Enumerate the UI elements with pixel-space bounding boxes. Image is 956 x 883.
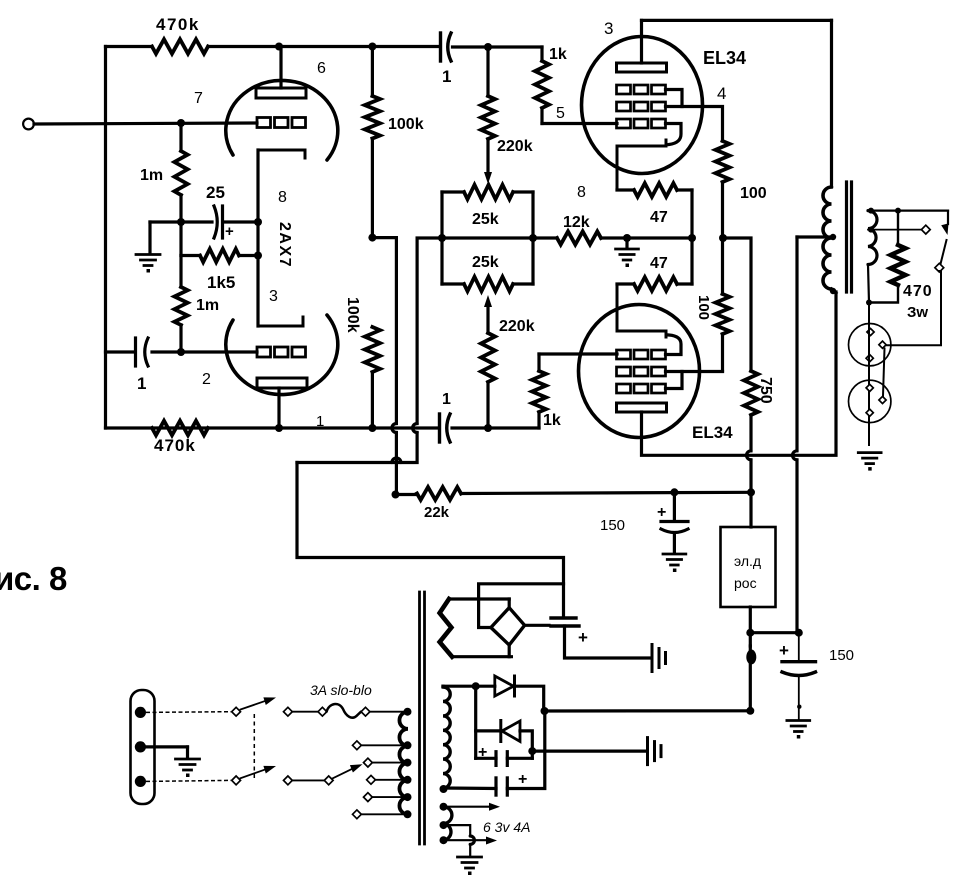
wire tap2	[372, 762, 408, 764]
svg-text:470k: 470k	[156, 15, 200, 34]
resistor 1k lower	[532, 354, 546, 428]
svg-text:2: 2	[202, 371, 211, 388]
wire bridge plus	[525, 624, 549, 627]
wire 1k lower to grid	[539, 352, 617, 355]
terminal jack1 top	[867, 328, 874, 335]
resistor 1k upper	[535, 61, 549, 108]
terminal speaker common	[935, 263, 944, 272]
svg-text:750: 750	[757, 377, 774, 404]
label 100 upper	[740, 185, 767, 202]
tube V1b envelope	[226, 315, 338, 395]
label pin 1 V1	[316, 413, 324, 430]
wire OT primary top	[830, 20, 833, 187]
label 47 upper	[650, 209, 668, 226]
terminal tap2	[364, 758, 373, 767]
resistor 100 lower	[716, 294, 730, 334]
svg-text:1: 1	[137, 374, 146, 393]
wire bridge bottom	[508, 645, 511, 657]
terminal fuse left	[318, 707, 327, 716]
capacitor 1 bottom	[440, 414, 451, 442]
wire V3 plate to OT	[642, 292, 837, 455]
label plus 150uF-2	[779, 641, 789, 660]
label 2AX7	[276, 222, 293, 268]
label fig 8	[0, 560, 67, 597]
label plus HV cap	[578, 628, 588, 647]
wire V2 plate to rail	[640, 20, 643, 63]
wire 1k5 leads	[181, 254, 258, 257]
capacitor 1 top	[441, 33, 452, 61]
wire bridge left	[440, 192, 443, 284]
ground G7 mains	[176, 759, 200, 777]
label plus bias A	[478, 744, 487, 761]
label 25k upper	[472, 211, 499, 228]
label 100 lower	[695, 295, 712, 320]
wire heater ct	[444, 825, 475, 856]
resistor 25k upper	[442, 185, 533, 199]
capacitor 150uF second	[782, 633, 816, 719]
junction heater ct	[440, 821, 448, 829]
resistor 47 lower	[617, 277, 692, 291]
svg-text:150: 150	[600, 517, 625, 534]
terminal switch1 pivot	[232, 707, 241, 716]
switch mains arm1	[241, 700, 269, 710]
wire HV bottom lead	[452, 655, 511, 658]
wire 100k upper leads	[371, 47, 374, 238]
svg-text:12k: 12k	[563, 214, 590, 231]
wire tap5	[361, 813, 407, 815]
arrow heater bottom	[486, 837, 497, 845]
junction 150uF-2 stem	[797, 705, 801, 709]
wire to cap lower-left	[106, 350, 134, 353]
wire bias top lead	[443, 685, 495, 689]
wire bridge top	[508, 599, 511, 608]
wire input to V1a grid	[34, 123, 257, 124]
junction PT tap 4	[404, 793, 412, 801]
junction 150uF-1 top	[670, 488, 678, 496]
svg-text:150: 150	[829, 647, 854, 664]
svg-text:100k: 100k	[388, 116, 424, 133]
junction screen/rail	[719, 234, 727, 242]
wire D1 out	[515, 686, 751, 711]
junction cathode/25uF	[254, 218, 262, 226]
wire V3 g3 to cathode	[666, 335, 682, 355]
label 220k upper	[497, 138, 533, 155]
label 47 lower	[650, 255, 668, 272]
label 1k5	[207, 273, 235, 292]
svg-text:470: 470	[903, 283, 933, 300]
tube V2 grids	[617, 85, 666, 128]
label 100k lower	[344, 297, 361, 333]
wire bias left drop	[474, 686, 477, 758]
chassis ground B	[648, 738, 662, 765]
label plus 25uF	[225, 223, 234, 240]
terminal tap5	[353, 810, 362, 819]
wire 750 down	[747, 415, 752, 527]
svg-text:25k: 25k	[472, 254, 499, 271]
label 25k lower	[472, 254, 499, 271]
transformer OT primary	[823, 187, 832, 289]
junction 220k top	[484, 43, 492, 51]
wire tap3	[375, 779, 407, 781]
wire OT primary bottom	[832, 289, 837, 293]
choke box el.d ros	[721, 527, 776, 607]
wire sec tap	[868, 229, 922, 231]
svg-text:100: 100	[740, 185, 767, 202]
terminal fuse left outer	[284, 707, 293, 716]
junction doubler mid	[528, 747, 536, 755]
label 470	[903, 283, 933, 300]
svg-text:ис. 8: ис. 8	[0, 560, 67, 597]
junction screen node	[747, 488, 755, 496]
tube V1b cathode	[258, 317, 303, 326]
svg-text:3: 3	[269, 288, 278, 305]
arrow 220k upper	[484, 172, 492, 184]
svg-text:5: 5	[556, 105, 565, 122]
wire D2 right	[520, 731, 532, 758]
junction 12k/ground	[623, 234, 631, 242]
wire mains top	[146, 711, 231, 714]
wire 100 lower to V3	[721, 334, 724, 371]
label plus bias B	[518, 771, 527, 788]
svg-text:EL34: EL34	[703, 48, 746, 68]
mains plug	[131, 690, 155, 804]
resistor 1m upper	[174, 151, 187, 195]
label 150 second	[829, 647, 854, 664]
svg-text:7: 7	[194, 90, 203, 107]
terminal tap3	[367, 775, 376, 784]
switch gang link	[253, 714, 255, 778]
wire tapsel	[292, 779, 325, 781]
wire Bplus to bridge	[297, 238, 564, 616]
capacitor bias A	[496, 752, 507, 766]
resistor 470k bottom	[152, 421, 208, 435]
transformer PT core	[420, 592, 425, 844]
wire fuse to PT	[370, 711, 408, 713]
switch mains arm2	[241, 769, 269, 779]
junction PT tap 1	[404, 741, 412, 749]
label 150 first	[600, 517, 625, 534]
chassis ground A	[652, 645, 666, 672]
transformer OT core	[847, 182, 852, 292]
resistor 750	[744, 371, 758, 415]
resistor 22k	[396, 487, 752, 500]
wire cap top to 1k	[453, 47, 543, 61]
wire HV top lead	[449, 597, 509, 600]
label 22k	[424, 504, 450, 521]
junction sec bottom/470	[866, 300, 872, 306]
wire cathode vertical	[256, 150, 259, 326]
resistor 12k	[533, 231, 692, 244]
junction 47s common	[688, 234, 696, 242]
wire screen to supply	[723, 238, 751, 371]
wire Bplus link	[750, 631, 799, 634]
resistor 470	[869, 211, 906, 303]
resistor 47 upper	[617, 183, 692, 197]
tube V3 cathode	[617, 284, 666, 337]
svg-text:25: 25	[206, 183, 225, 202]
svg-text:100: 100	[695, 295, 712, 320]
wire 1m upper leads	[179, 123, 182, 256]
wire cap bottom to 1k lower	[452, 426, 539, 429]
wire D2 left	[476, 729, 501, 732]
wire OT sec top	[868, 211, 948, 224]
junction heater bottom	[440, 836, 448, 844]
label plus 150uF-1	[657, 504, 666, 521]
label pin 6	[317, 60, 326, 77]
ground G2 bias	[616, 238, 639, 267]
wire heater bottom lead	[444, 839, 487, 841]
terminal tap1	[353, 741, 362, 750]
arrow switch2	[263, 766, 276, 774]
svg-text:22k: 22k	[424, 504, 450, 521]
wire bridge right	[531, 192, 534, 284]
svg-text:+: +	[779, 641, 789, 660]
ground G1 cathode	[136, 222, 160, 273]
ground G5 speaker	[858, 453, 881, 471]
label pin 4	[717, 84, 726, 103]
speaker jack 1	[849, 324, 891, 366]
terminal jack2 hot	[879, 396, 886, 403]
svg-text:1: 1	[442, 67, 451, 86]
terminal tap4	[364, 793, 373, 802]
wire bridge middle	[442, 236, 533, 239]
wire heater top lead	[444, 806, 490, 808]
svg-text:47: 47	[650, 209, 668, 226]
label 6.3v 4A	[483, 819, 530, 835]
diode D1	[495, 676, 515, 696]
label 25	[206, 183, 225, 202]
wire 1m lower leads	[179, 256, 182, 353]
resistor 220k upper	[481, 47, 495, 172]
label pin 8 V1	[278, 189, 287, 206]
ground G4 150uF-2	[787, 721, 810, 739]
wire mains mid to ground	[146, 747, 188, 758]
svg-text:Зw: Зw	[907, 304, 928, 321]
svg-text:1k5: 1k5	[207, 273, 235, 292]
resistor 1k5	[200, 249, 239, 262]
resistor 100k upper	[365, 96, 380, 139]
junction 22k left	[392, 491, 400, 499]
junction 470 top	[895, 208, 901, 214]
svg-text:1m: 1m	[196, 297, 219, 314]
wire bottom rail left	[106, 426, 438, 429]
svg-text:1k: 1k	[549, 46, 567, 63]
label 470k bottom	[154, 436, 196, 455]
label pin 3 V2	[604, 19, 613, 38]
svg-text:рос: рос	[734, 575, 757, 591]
label EL34 upper	[703, 48, 746, 68]
svg-text:220k: 220k	[497, 138, 533, 155]
svg-text:+: +	[657, 504, 666, 521]
svg-text:3: 3	[604, 19, 613, 38]
tube V1a envelope	[226, 80, 338, 160]
wire bridge minus	[479, 584, 564, 628]
wire capB right	[507, 711, 545, 789]
capacitor HV reservoir	[551, 618, 579, 626]
tube V1a plate	[256, 88, 306, 98]
junction 100k1/rail	[368, 43, 376, 51]
label pin 2	[202, 371, 211, 388]
label 3w	[907, 304, 928, 321]
tube V1b grid	[257, 347, 306, 357]
label 1k lower	[543, 412, 561, 429]
label pin 7	[194, 90, 203, 107]
label 220k lower	[499, 318, 535, 335]
ground G6 heater	[458, 857, 482, 875]
transformer OT secondary	[868, 211, 877, 265]
wire top rail left	[106, 45, 153, 48]
transformer PT primary	[399, 712, 408, 815]
label 3A slo-blo	[310, 682, 372, 698]
arrow tap switch	[350, 764, 363, 772]
wire to fuse	[292, 711, 319, 713]
wire top rail right	[208, 45, 439, 48]
label 1 cap top	[442, 67, 451, 86]
wire plate rail to OT	[642, 19, 832, 22]
svg-text:25k: 25k	[472, 211, 499, 228]
wire sec bottom	[868, 265, 869, 303]
junction PT tap 2	[404, 759, 412, 767]
terminal tapsel pivot	[284, 776, 293, 785]
wire bead to rect	[749, 646, 752, 711]
junction Bplus left	[746, 629, 754, 637]
resistor 470k top	[152, 39, 208, 53]
label 1m upper	[140, 167, 163, 184]
junction PT tap 5	[404, 810, 412, 818]
label 1k upper	[549, 46, 567, 63]
wire V3 g1-row bracket	[666, 372, 683, 389]
resistor 1m lower	[174, 287, 187, 325]
arrow switch1	[263, 697, 276, 705]
junction sec tap	[868, 227, 874, 233]
winding HV zigzag	[440, 599, 453, 657]
wire V1b plate down	[277, 388, 280, 428]
fuse 3A	[327, 704, 362, 718]
label 1 cap lower-left	[137, 374, 146, 393]
wire doubler ground	[532, 749, 645, 752]
svg-text:220k: 220k	[499, 318, 535, 335]
tube V3 envelope	[579, 305, 700, 438]
resistor 220k lower	[481, 307, 495, 428]
junction bias top	[472, 682, 480, 690]
label EL34 lower	[692, 423, 733, 442]
fuse bead	[746, 650, 756, 665]
capacitor 150uF first	[661, 492, 688, 553]
junction 220k lower/rail	[484, 424, 492, 432]
svg-text:эл.д: эл.д	[734, 553, 761, 569]
junction 100k2/rail	[368, 424, 376, 432]
svg-text:8: 8	[577, 184, 586, 201]
label 750	[757, 377, 774, 404]
junction PT primary top	[404, 708, 412, 716]
label 1m lower	[196, 297, 219, 314]
wire HV cap to chassis	[565, 626, 651, 658]
mains pin bottom	[135, 776, 146, 787]
svg-text:4: 4	[717, 84, 726, 103]
ground G3 150uF-1	[663, 554, 686, 572]
wire mains bottom	[146, 780, 231, 781]
junction bridge mid right	[529, 234, 537, 242]
tube V1a cathode	[258, 150, 305, 158]
wire V2 g1-row bracket	[666, 90, 683, 107]
junction PT tap 3	[404, 776, 412, 784]
junction input/1m	[177, 119, 185, 127]
label 100k upper	[388, 116, 424, 133]
label pin 8 V2	[577, 184, 586, 201]
svg-text:+: +	[578, 628, 588, 647]
wire tap1	[361, 744, 407, 746]
switch tap arm	[333, 768, 356, 779]
wire capA left	[476, 757, 496, 760]
terminal tapsel mid	[324, 776, 333, 785]
capacitor 25uF plus	[214, 206, 223, 238]
label 12k	[563, 214, 590, 231]
svg-text:2AX7: 2AX7	[276, 222, 293, 268]
mains pin mid	[135, 741, 146, 752]
svg-text:3A slo-blo: 3A slo-blo	[310, 682, 372, 698]
speaker jack 2	[849, 380, 891, 422]
wire 25uF to cathode	[224, 220, 258, 223]
wire tap4	[372, 796, 407, 798]
bridge rectifier	[491, 608, 525, 645]
junction cathode/1k5	[254, 252, 262, 260]
label pin 3 V1	[269, 288, 278, 305]
junction OT centre tap	[830, 234, 836, 240]
wire ground to cap 25	[150, 220, 212, 223]
resistor 100 upper	[716, 141, 730, 182]
svg-text:EL34: EL34	[692, 423, 733, 442]
terminal jack1 bottom	[866, 355, 873, 362]
junction 100k mid	[368, 234, 376, 242]
wire left rail vertical	[104, 47, 107, 429]
junction bridge mid left	[438, 234, 446, 242]
wire speaker link	[883, 349, 885, 397]
wire 1k to pin5	[542, 108, 617, 124]
junction D1 out	[541, 707, 549, 715]
junction grid/1m lower	[177, 348, 185, 356]
wire choke to Bplus	[749, 607, 752, 646]
transformer PT bias winding	[443, 687, 450, 788]
tube V3 plate	[617, 403, 667, 412]
svg-text:8: 8	[278, 189, 287, 206]
arrow heater top	[489, 803, 500, 811]
arrow speaker switch	[941, 223, 948, 235]
terminal switch2 pivot	[232, 776, 241, 785]
terminal jack2 top	[866, 384, 873, 391]
terminal jack2 bottom	[866, 409, 873, 416]
svg-text:47: 47	[650, 255, 668, 272]
resistor 25k lower	[442, 277, 533, 291]
junction V1b plate/rail	[275, 424, 283, 432]
tube V2 envelope	[582, 37, 703, 174]
resistor 100k lower	[365, 327, 380, 372]
wire V1b grid	[152, 350, 257, 353]
junction Bplus right	[795, 629, 803, 637]
wire V3 screen row	[666, 370, 723, 373]
label 1 cap bottom	[442, 391, 451, 408]
junction V1a plate/rail	[275, 43, 283, 51]
terminal sec tap	[921, 225, 930, 234]
wire speaker feed	[884, 271, 941, 345]
wire OT CT riser	[793, 237, 832, 633]
terminal fuse right	[361, 707, 370, 716]
junction heater top	[440, 803, 448, 811]
junction sec top	[868, 208, 874, 214]
svg-text:1m: 1m	[140, 167, 163, 184]
wire V2 screen pin4	[666, 107, 723, 142]
junction 1m/ground wire	[177, 218, 185, 226]
label el.d	[734, 553, 761, 569]
